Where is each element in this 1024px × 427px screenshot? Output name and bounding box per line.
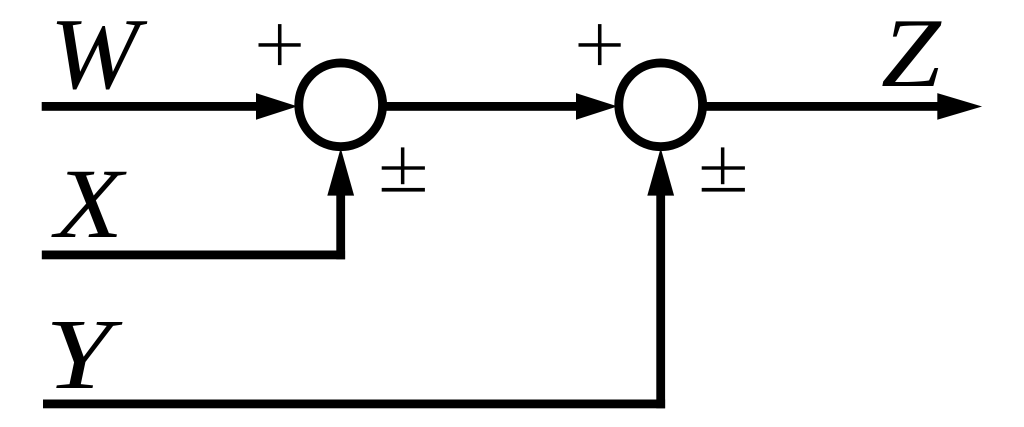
wire Y horizontal — [43, 400, 665, 409]
op-amp summer S1 circle — [299, 63, 383, 147]
plus-minus sign at S2 — [702, 147, 745, 191]
arrowhead output Z — [937, 93, 982, 120]
wire S2 to output — [706, 102, 941, 111]
wire X vertical riser — [336, 193, 345, 259]
arrowhead into summer S2 — [576, 93, 618, 120]
wire S1 to S2 — [386, 102, 580, 111]
op-amp summer S2 circle — [619, 63, 703, 147]
arrowhead Y into S2 bottom — [647, 148, 674, 196]
svg-text:X: X — [51, 148, 128, 259]
plus sign at S1 — [259, 24, 301, 65]
plus-minus sign at S1 — [382, 147, 425, 191]
svg-text:Z: Z — [881, 0, 942, 108]
arrowhead W into summer S1 — [256, 93, 298, 120]
wire Y vertical riser — [656, 193, 665, 408]
arrowhead X into S1 bottom — [327, 148, 354, 196]
wire W input — [42, 102, 262, 111]
svg-text:W: W — [50, 0, 149, 110]
wire X horizontal — [42, 251, 345, 260]
svg-text:Y: Y — [45, 298, 123, 410]
plus sign at S2 — [579, 24, 621, 65]
